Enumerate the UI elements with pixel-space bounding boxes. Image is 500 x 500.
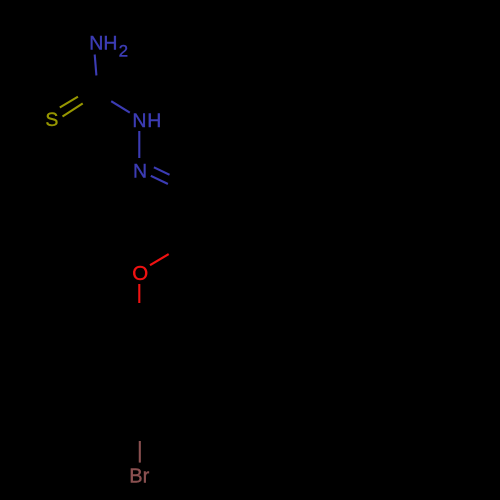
wire: double bond N3=C2 main line, N half (blue) [151,176,168,184]
svg-text:S: S [45,109,58,131]
wire: bond O-C4 (ring), O half (red) [138,284,140,303]
wire: bond C7-Br, C half (black invisible) [138,430,140,441]
wire: bond C3-O, O half (red) [150,254,169,265]
bromophenyl ring (black invisible) [90,316,189,430]
svg-text:O: O [132,262,148,285]
svg-text:Br: Br [129,466,149,488]
svg-text:NH: NH [132,110,162,132]
wire: double bond C1=S second line, C half (black invisible) [78,89,91,97]
phenyl ring (black invisible) [233,88,325,194]
wire: double bond N3=C2 second line, N half (blue) [154,167,170,175]
wire: bond C7-Br, Br half (rosy brown) [139,441,141,463]
svg-text:NH: NH [89,33,117,55]
wire: double bond C1=S main line, S half (olive) [63,103,83,116]
svg-text:2: 2 [119,42,128,61]
wire: bond C2-C3 (black invisible) [185,193,187,243]
wire: bond O-C4, C half (black invisible) [138,303,140,316]
wire: double bond C1=S second line, S half (olive) [60,97,78,108]
atom label NH (hydrazide nitrogen N2) [132,110,162,132]
wire: double bond N3=C2 main line, C half (black invisible) [168,184,186,193]
wire: bond N1-C1, C half (black invisible) [96,76,98,94]
atom label NH2 (amine nitrogen N1) [89,33,128,61]
svg-text:N: N [133,161,147,183]
wire: bond C1-N2, N half (blue) [111,101,130,112]
atom label S (thione sulfur) [45,109,58,131]
atom label O (ether oxygen) [132,262,148,285]
atom label N (imine nitrogen N3) [133,161,147,183]
wire: bond N2-N3 (blue, both halves nitrogen) [138,131,140,158]
atom label Br (bromine) [129,466,149,488]
wire: bond C1-N2(HN), C half (black invisible) [98,93,111,101]
wire: bond C2-Cp1 to phenyl (black invisible) [186,167,233,193]
wire: bond C3-O, C half (black invisible) [169,243,187,254]
wire: bond N1(H2N)-C1, N half (blue) [95,55,97,76]
wire: double bond N3=C2 second line, C half (black invisible) [170,175,182,181]
wire: double bond C1=S main line, C half (black invisible) [83,93,98,103]
